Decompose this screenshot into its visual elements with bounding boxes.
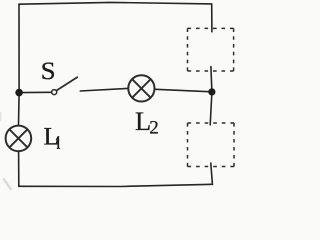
- svg-text:S: S: [41, 56, 56, 85]
- wire right lower (bottom corner to box2): [211, 163, 213, 184]
- dashed box 1 (upper placeholder): [188, 28, 234, 71]
- wire right between node and box1: [211, 67, 212, 92]
- lamp L1: [6, 126, 32, 152]
- switch S: [52, 77, 77, 94]
- wire right upper (top corner into box1): [211, 4, 213, 32]
- wire bottom: [19, 184, 213, 186]
- wire right between box2 and node: [210, 92, 212, 125]
- label L1: [44, 122, 61, 151]
- node left junction: [15, 89, 23, 97]
- node right junction: [208, 88, 215, 95]
- svg-text:L: L: [44, 122, 60, 151]
- scan artifact left edge smudge: [0, 112, 1, 121]
- wire top: [19, 2, 212, 4]
- dashed box 2 (lower placeholder): [188, 123, 235, 167]
- wire left upper: [18, 4, 20, 92]
- svg-text:2: 2: [149, 118, 159, 139]
- wire middle (switch to L2): [80, 88, 127, 91]
- wire left lower: [18, 152, 20, 186]
- wire middle left (node to switch): [19, 91, 51, 93]
- wire middle right (L2 to node): [156, 89, 212, 92]
- lamp L2: [128, 75, 154, 101]
- wire left between node and L1: [18, 93, 21, 125]
- scan artifact streak bottom-left: [3, 179, 11, 191]
- label L2: [135, 106, 159, 138]
